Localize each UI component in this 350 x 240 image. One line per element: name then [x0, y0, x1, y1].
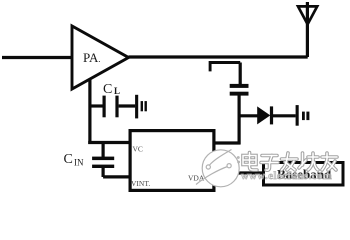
svg-text:www.elecfans.com: www.elecfans.com — [241, 171, 332, 182]
svg-text:VINT.: VINT. — [131, 179, 150, 188]
svg-text:VDA: VDA — [188, 173, 205, 182]
svg-text:C: C — [64, 152, 73, 167]
svg-text:L: L — [114, 86, 120, 96]
svg-text:PA.: PA. — [83, 50, 100, 65]
svg-text:IN: IN — [74, 158, 84, 168]
svg-text:C: C — [103, 82, 112, 97]
svg-text:VC: VC — [133, 145, 143, 154]
